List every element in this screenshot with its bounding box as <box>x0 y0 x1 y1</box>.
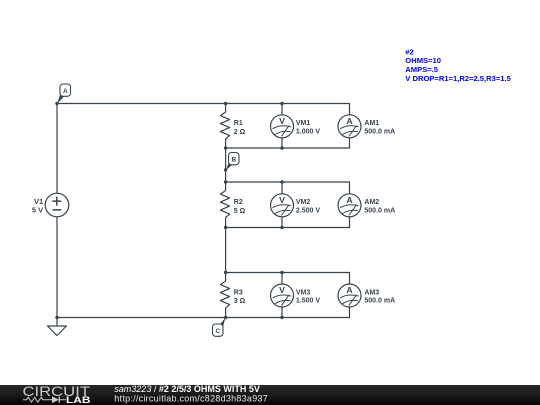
wire AM2 stubs <box>349 182 351 228</box>
svg-text:5 V: 5 V <box>32 205 43 214</box>
junction R3 top <box>224 271 227 274</box>
ground <box>48 318 67 336</box>
junction ground <box>55 316 58 319</box>
junction node C anchor <box>224 316 227 319</box>
svg-text:A: A <box>346 195 353 205</box>
svg-text:A: A <box>63 88 68 95</box>
logo wire into diode <box>48 399 52 401</box>
svg-text:AM3: AM3 <box>364 289 379 296</box>
svg-text:2.500 V: 2.500 V <box>296 208 320 215</box>
svg-text:A: A <box>346 116 353 126</box>
logo diode triangle <box>52 396 59 403</box>
wire left vertical upper <box>56 104 58 194</box>
logo resistor zigzag and diode <box>23 397 66 403</box>
voltmeter VM1 <box>271 115 294 138</box>
junction VM1 bottom <box>280 146 283 149</box>
svg-text:sam3223 / #2 2/5/3 OHMS WITH 5: sam3223 / #2 2/5/3 OHMS WITH 5V <box>114 384 260 394</box>
footer bar <box>0 385 540 405</box>
wire VM2 stubs <box>281 182 283 228</box>
wire AM1 stubs <box>349 104 351 149</box>
svg-text:AMPS=.5: AMPS=.5 <box>405 65 438 74</box>
svg-text:B: B <box>231 156 236 163</box>
wire AM3 stubs <box>349 273 351 318</box>
voltmeter VM2 <box>271 194 294 217</box>
resistor R1 <box>220 104 229 149</box>
node C <box>213 318 226 337</box>
svg-text:500.0 mA: 500.0 mA <box>364 129 395 136</box>
resistor R2 <box>220 182 229 228</box>
wire bottom rail node C <box>57 317 350 319</box>
svg-text:C: C <box>215 328 220 335</box>
svg-text:VM2: VM2 <box>296 199 311 206</box>
annotation blue text <box>405 47 511 83</box>
junction node B anchor <box>224 168 227 171</box>
resistor R3 <box>220 273 229 318</box>
svg-text:R2: R2 <box>234 199 243 206</box>
svg-text:500.0 mA: 500.0 mA <box>364 208 395 215</box>
ammeter AM3 <box>338 284 361 307</box>
svg-text:3 Ω: 3 Ω <box>234 298 246 305</box>
svg-text:R1: R1 <box>234 120 243 127</box>
node A <box>57 84 70 104</box>
svg-text:VM1: VM1 <box>296 120 311 127</box>
wire node B segment <box>225 148 227 182</box>
junction R1 top <box>224 102 227 105</box>
wire top rail node A <box>57 103 350 105</box>
wire rung2 top rail <box>226 181 350 183</box>
svg-text:1.500 V: 1.500 V <box>296 298 320 305</box>
wire VM1 stubs <box>281 104 283 149</box>
voltage source V1 <box>45 193 69 217</box>
svg-text:http://circuitlab.com/c828d3h8: http://circuitlab.com/c828d3h83a937 <box>114 394 268 404</box>
svg-text:500.0 mA: 500.0 mA <box>364 298 395 305</box>
wire between rung2 and rung3 <box>225 228 227 273</box>
junction VM2 bottom <box>280 226 283 229</box>
svg-text:LAB: LAB <box>66 395 91 405</box>
junction at node A corner <box>55 102 58 105</box>
svg-text:#2: #2 <box>405 47 413 56</box>
svg-text:AM2: AM2 <box>364 199 379 206</box>
svg-text:OHMS=10: OHMS=10 <box>405 56 441 65</box>
svg-text:AM1: AM1 <box>364 120 379 127</box>
wire rung3 top rail <box>226 272 350 274</box>
svg-text:VM3: VM3 <box>296 289 311 296</box>
svg-text:V: V <box>279 285 285 295</box>
junction VM2 top <box>280 180 283 183</box>
svg-text:A: A <box>346 285 353 295</box>
wire rung1 bottom rail <box>226 147 350 149</box>
junction R2 bottom <box>224 226 227 229</box>
wire rung2 bottom rail <box>226 227 350 229</box>
svg-text:1.000 V: 1.000 V <box>296 129 320 136</box>
svg-text:5 Ω: 5 Ω <box>234 208 246 215</box>
junction VM1 top <box>280 102 283 105</box>
junction VM3 top <box>280 271 283 274</box>
voltmeter VM3 <box>271 284 294 307</box>
wire left vertical lower <box>56 217 58 318</box>
ammeter AM2 <box>338 194 361 217</box>
ammeter AM1 <box>338 115 361 138</box>
junction R1 bottom <box>224 146 227 149</box>
wire VM3 stubs <box>281 273 283 318</box>
junction R2 top <box>224 180 227 183</box>
node B <box>226 153 239 171</box>
svg-text:R3: R3 <box>234 290 243 297</box>
svg-text:2 Ω: 2 Ω <box>234 129 246 136</box>
junction VM3 bottom <box>280 316 283 319</box>
svg-text:V DROP=R1=1,R2=2.5,R3=1.5: V DROP=R1=1,R2=2.5,R3=1.5 <box>405 74 511 83</box>
svg-text:V: V <box>279 116 285 126</box>
svg-text:V: V <box>279 195 285 205</box>
